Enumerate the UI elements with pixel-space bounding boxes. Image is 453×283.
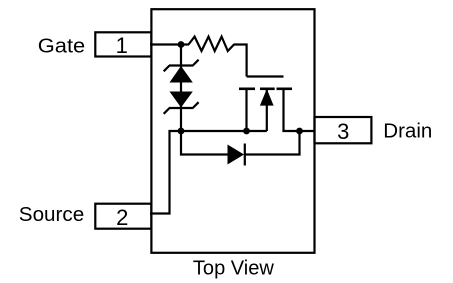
wire pin 2 to source rail: [150, 131, 267, 214]
wire body diode right leg: [245, 131, 300, 155]
zener Z2 anode triangle: [170, 92, 193, 108]
node drain junction dot: [296, 128, 303, 135]
node gate junction dot: [178, 41, 185, 48]
svg-text:Source: Source: [19, 204, 84, 226]
mosfet Q1 body arrow shaft: [266, 90, 268, 131]
mosfet Q1 channel segment source: [239, 88, 255, 91]
mosfet Q1 body arrow head: [260, 89, 274, 106]
mosfet Q1 gate plate: [247, 75, 284, 77]
wire resistor to mosfet gate: [234, 45, 247, 77]
node source-contact junction dot: [243, 128, 250, 135]
package outline (Top View body): [151, 9, 314, 253]
svg-text:2: 2: [116, 205, 128, 230]
resistor R1: [189, 37, 235, 51]
body diode D1 anode triangle: [228, 145, 245, 165]
mosfet Q1 source contact wire: [245, 89, 247, 131]
wire zener branch vertical: [180, 45, 182, 132]
body diode D1 cathode bar: [244, 144, 246, 166]
zener Z1 anode triangle: [170, 66, 193, 83]
node source-zener junction dot: [178, 128, 185, 135]
pin 2 box: [95, 204, 151, 229]
svg-text:Top View: Top View: [193, 257, 275, 279]
pin 1 box: [95, 32, 151, 56]
svg-text:Drain: Drain: [383, 121, 432, 143]
wire body diode left leg: [181, 131, 228, 155]
pin 3 box: [315, 117, 372, 143]
svg-text:Gate: Gate: [38, 35, 85, 57]
svg-text:1: 1: [116, 33, 128, 58]
svg-text:3: 3: [337, 119, 349, 144]
zener Z1 cathode bar: [169, 64, 193, 66]
zener Z2 cathode wing right: [193, 102, 199, 108]
mosfet Q1 channel segment drain: [277, 88, 293, 91]
mosfet Q1 channel segment body: [260, 88, 275, 91]
mosfet Q1 drain contact wire: [284, 89, 316, 131]
zener Z1 cathode wing right: [193, 60, 199, 66]
zener Z2 cathode bar: [169, 107, 193, 109]
wire gate pin to resistor: [150, 43, 189, 45]
zener Z2 cathode wing left: [164, 108, 170, 114]
zener Z1 cathode wing left: [164, 66, 170, 72]
